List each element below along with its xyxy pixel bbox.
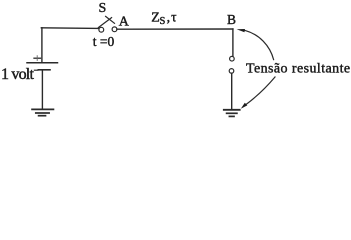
ground right bar2 — [227, 112, 237, 114]
switch S terminal circle left — [99, 27, 104, 32]
svg-text:B: B — [227, 12, 236, 27]
battery V1 positive plate — [27, 62, 58, 64]
wire battery negative to ground — [41, 70, 43, 109]
svg-text:A: A — [119, 15, 130, 30]
switch S terminal circle right — [112, 27, 117, 32]
ground left bar3 — [39, 115, 46, 117]
battery minus sign — [34, 69, 37, 71]
ground right bar3 — [229, 115, 234, 117]
open terminal circle upper — [230, 56, 235, 61]
wire B vertical down — [232, 29, 234, 56]
wire left vertical (corner to battery +) — [41, 28, 43, 62]
wire A to B — [117, 28, 233, 30]
arrowhead at ground — [241, 103, 248, 109]
svg-text:Tensão resultante: Tensão resultante — [246, 61, 351, 76]
annotation arrow arc to ground — [246, 77, 275, 105]
switch S lever — [98, 18, 111, 28]
svg-text:S: S — [99, 1, 107, 16]
open terminal circle lower — [229, 69, 234, 74]
svg-text:ZS,τ: ZS,τ — [151, 10, 177, 28]
svg-text:t =0: t =0 — [93, 34, 115, 49]
battery plus sign — [34, 57, 41, 59]
battery V1 negative plate — [38, 69, 50, 71]
arrowhead at node B — [237, 29, 245, 32]
ground left bar2 — [36, 112, 49, 114]
wire lower terminal to ground — [231, 73, 233, 109]
switch S cross mark — [106, 16, 115, 23]
ground left bar1 — [32, 108, 53, 110]
ground right bar1 — [224, 109, 240, 111]
annotation arrow arc to node B — [245, 30, 274, 59]
wire top horizontal (corner to switch) — [41, 27, 99, 30]
svg-text:1 volt: 1 volt — [1, 66, 34, 83]
